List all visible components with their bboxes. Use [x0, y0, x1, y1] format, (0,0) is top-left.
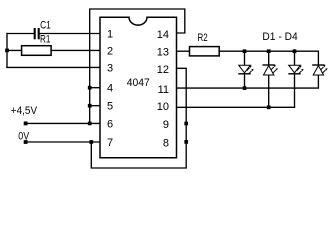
wire pin 11 row / rail A to D1,D4 cathode: [177, 87, 319, 89]
wire pin 13 to R2: [177, 50, 190, 52]
terminal +4,5V: [24, 122, 28, 126]
IC U1 4047 body with notch: [100, 17, 177, 157]
junction dot rail A D1 cathode: [243, 86, 247, 90]
junction dot rail-R1: [5, 49, 9, 53]
svg-text:0V: 0V: [18, 130, 30, 142]
LED D3 (cathode down): [288, 51, 301, 107]
junction dot anode rail D2: [267, 49, 271, 53]
wire LED anode top rail to D4: [245, 51, 319, 65]
svg-text:R2: R2: [198, 32, 208, 44]
svg-text:14: 14: [157, 29, 169, 41]
svg-text:1: 1: [107, 29, 113, 41]
svg-text:11: 11: [158, 84, 169, 96]
wire pin 10 row / rail B to D2,D3: [177, 106, 295, 108]
junction dot bus pin5: [88, 104, 92, 108]
svg-text:5: 5: [107, 101, 113, 113]
wire R2 to anode rail of LEDs: [219, 50, 244, 52]
wire +4,5V supply to pin 6: [26, 122, 100, 124]
wire 0V to pin 7: [26, 141, 100, 143]
svg-text:C1: C1: [40, 19, 51, 31]
wire rail to R1: [7, 49, 22, 51]
wire C1 to pin 1 of IC: [40, 33, 100, 35]
svg-text:9: 9: [163, 119, 169, 131]
junction dot bus pin6 +4,5V: [88, 122, 92, 126]
terminal 0V: [24, 140, 28, 144]
svg-text:4047: 4047: [127, 77, 150, 89]
svg-text:D1 - D4: D1 - D4: [262, 31, 297, 43]
LED D4 (cathode up): [312, 65, 325, 88]
svg-text:R1: R1: [40, 33, 50, 45]
resistor R1: [22, 46, 51, 56]
svg-text:10: 10: [157, 101, 169, 113]
junction dot 0V branch: [89, 140, 93, 144]
svg-text:8: 8: [163, 138, 169, 150]
LED D1 (cathode down): [238, 51, 251, 88]
junction dot rail B D2 cathode: [267, 105, 271, 109]
wire pin1 row from rail to C1: [7, 33, 34, 35]
svg-text:6: 6: [107, 118, 113, 130]
wire bus stub pin 5: [90, 105, 100, 107]
svg-text:4: 4: [107, 83, 113, 95]
wire left rail C1/R1 common: [6, 34, 8, 68]
wire 0V bottom return to right ground bus, pins 12,9,8: [91, 68, 186, 168]
junction dot bus pin4: [88, 86, 92, 90]
svg-text:12: 12: [157, 64, 169, 76]
resistor R2: [190, 47, 220, 56]
wire R1 to pin 2 of IC: [51, 49, 100, 51]
capacitor C1: [35, 28, 39, 39]
svg-text:2: 2: [107, 45, 113, 57]
svg-text:+4,5V: +4,5V: [11, 105, 38, 117]
junction dot right bus pin8: [184, 140, 188, 144]
junction dot anode rail D1: [243, 49, 247, 53]
wire left VDD bus (pin14 to pins 4,5,6): [90, 9, 185, 123]
junction dot anode rail D3: [293, 49, 297, 53]
LED D2 (cathode up): [263, 51, 276, 107]
svg-text:3: 3: [107, 62, 113, 74]
wire bus stub pin 4: [90, 87, 100, 89]
svg-text:13: 13: [157, 47, 169, 59]
svg-text:7: 7: [107, 137, 113, 149]
wire rail to pin 3 of IC: [7, 66, 100, 68]
junction dot right bus pin9: [184, 122, 188, 126]
